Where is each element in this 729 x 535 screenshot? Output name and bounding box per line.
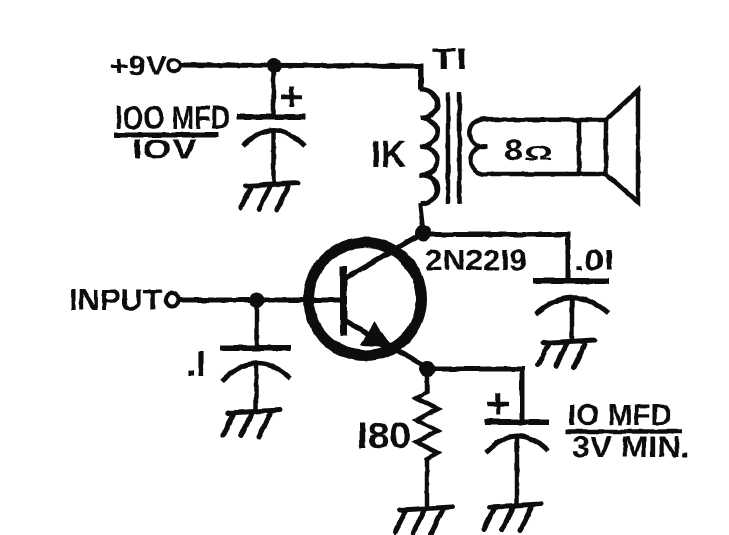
junction collector/coil: [415, 225, 431, 241]
ground C4: [484, 504, 541, 531]
capacitor C4 plus sign: [487, 393, 509, 415]
transistor Q1 collector lead: [344, 232, 424, 279]
wire coil bottom to junction: [420, 203, 423, 230]
capacitor C4 10 MFD: [485, 422, 549, 503]
capacitor C1 100 MFD plus sign: [281, 87, 302, 107]
wire collector node to C2: [423, 235, 568, 284]
transistor Q1 emitter lead: [344, 320, 428, 368]
svg-text:IO MFD: IO MFD: [568, 399, 672, 432]
svg-text:+9V: +9V: [110, 50, 167, 81]
svg-text:.I: .I: [186, 343, 206, 384]
terminal INPUT: [166, 293, 179, 306]
wire input to base: [179, 298, 262, 303]
wire C3 top lead: [254, 300, 259, 345]
fraction line 10MFD/3V: [565, 429, 682, 434]
resistor R1 180: [416, 376, 438, 506]
junction emitter: [419, 361, 435, 377]
ground C2: [538, 340, 595, 367]
svg-text:Ω: Ω: [524, 142, 553, 165]
ground C3: [223, 410, 280, 437]
transformer T1 core: [448, 92, 460, 204]
junction supply/C1: [267, 58, 282, 73]
svg-text:8: 8: [504, 135, 523, 167]
ground C1: [241, 183, 298, 210]
wire base lead: [262, 298, 342, 303]
transistor Q1 emitter arrow: [362, 323, 390, 347]
svg-text:.0I: .0I: [574, 245, 614, 277]
svg-text:IOO MFD: IOO MFD: [115, 99, 230, 136]
transistor Q1 circle: [309, 243, 422, 356]
ground R1: [395, 507, 452, 534]
transistor Q1 base bar: [340, 266, 347, 336]
terminal +9V: [168, 60, 180, 72]
svg-text:IK: IK: [371, 134, 407, 176]
capacitor C3 .1: [220, 348, 291, 410]
svg-text:2N22I9: 2N22I9: [425, 245, 527, 277]
wire emitter to C4: [427, 369, 522, 420]
svg-text:I80: I80: [357, 415, 411, 456]
svg-text:INPUT: INPUT: [69, 284, 162, 317]
fraction line 100MFD/10V: [114, 133, 219, 138]
svg-text:3V MIN.: 3V MIN.: [572, 431, 690, 464]
junction base/C3: [250, 293, 265, 308]
wire supply rail to transformer: [181, 65, 422, 90]
capacitor C1 100 MFD: [237, 117, 305, 183]
capacitor C2 .01: [533, 281, 609, 340]
speaker 8 ohm: [469, 90, 638, 202]
transformer T1 primary winding 1K: [420, 89, 437, 203]
wire C1 top lead: [271, 66, 276, 114]
svg-text:IOV: IOV: [132, 134, 197, 164]
svg-text:TI: TI: [432, 43, 467, 76]
